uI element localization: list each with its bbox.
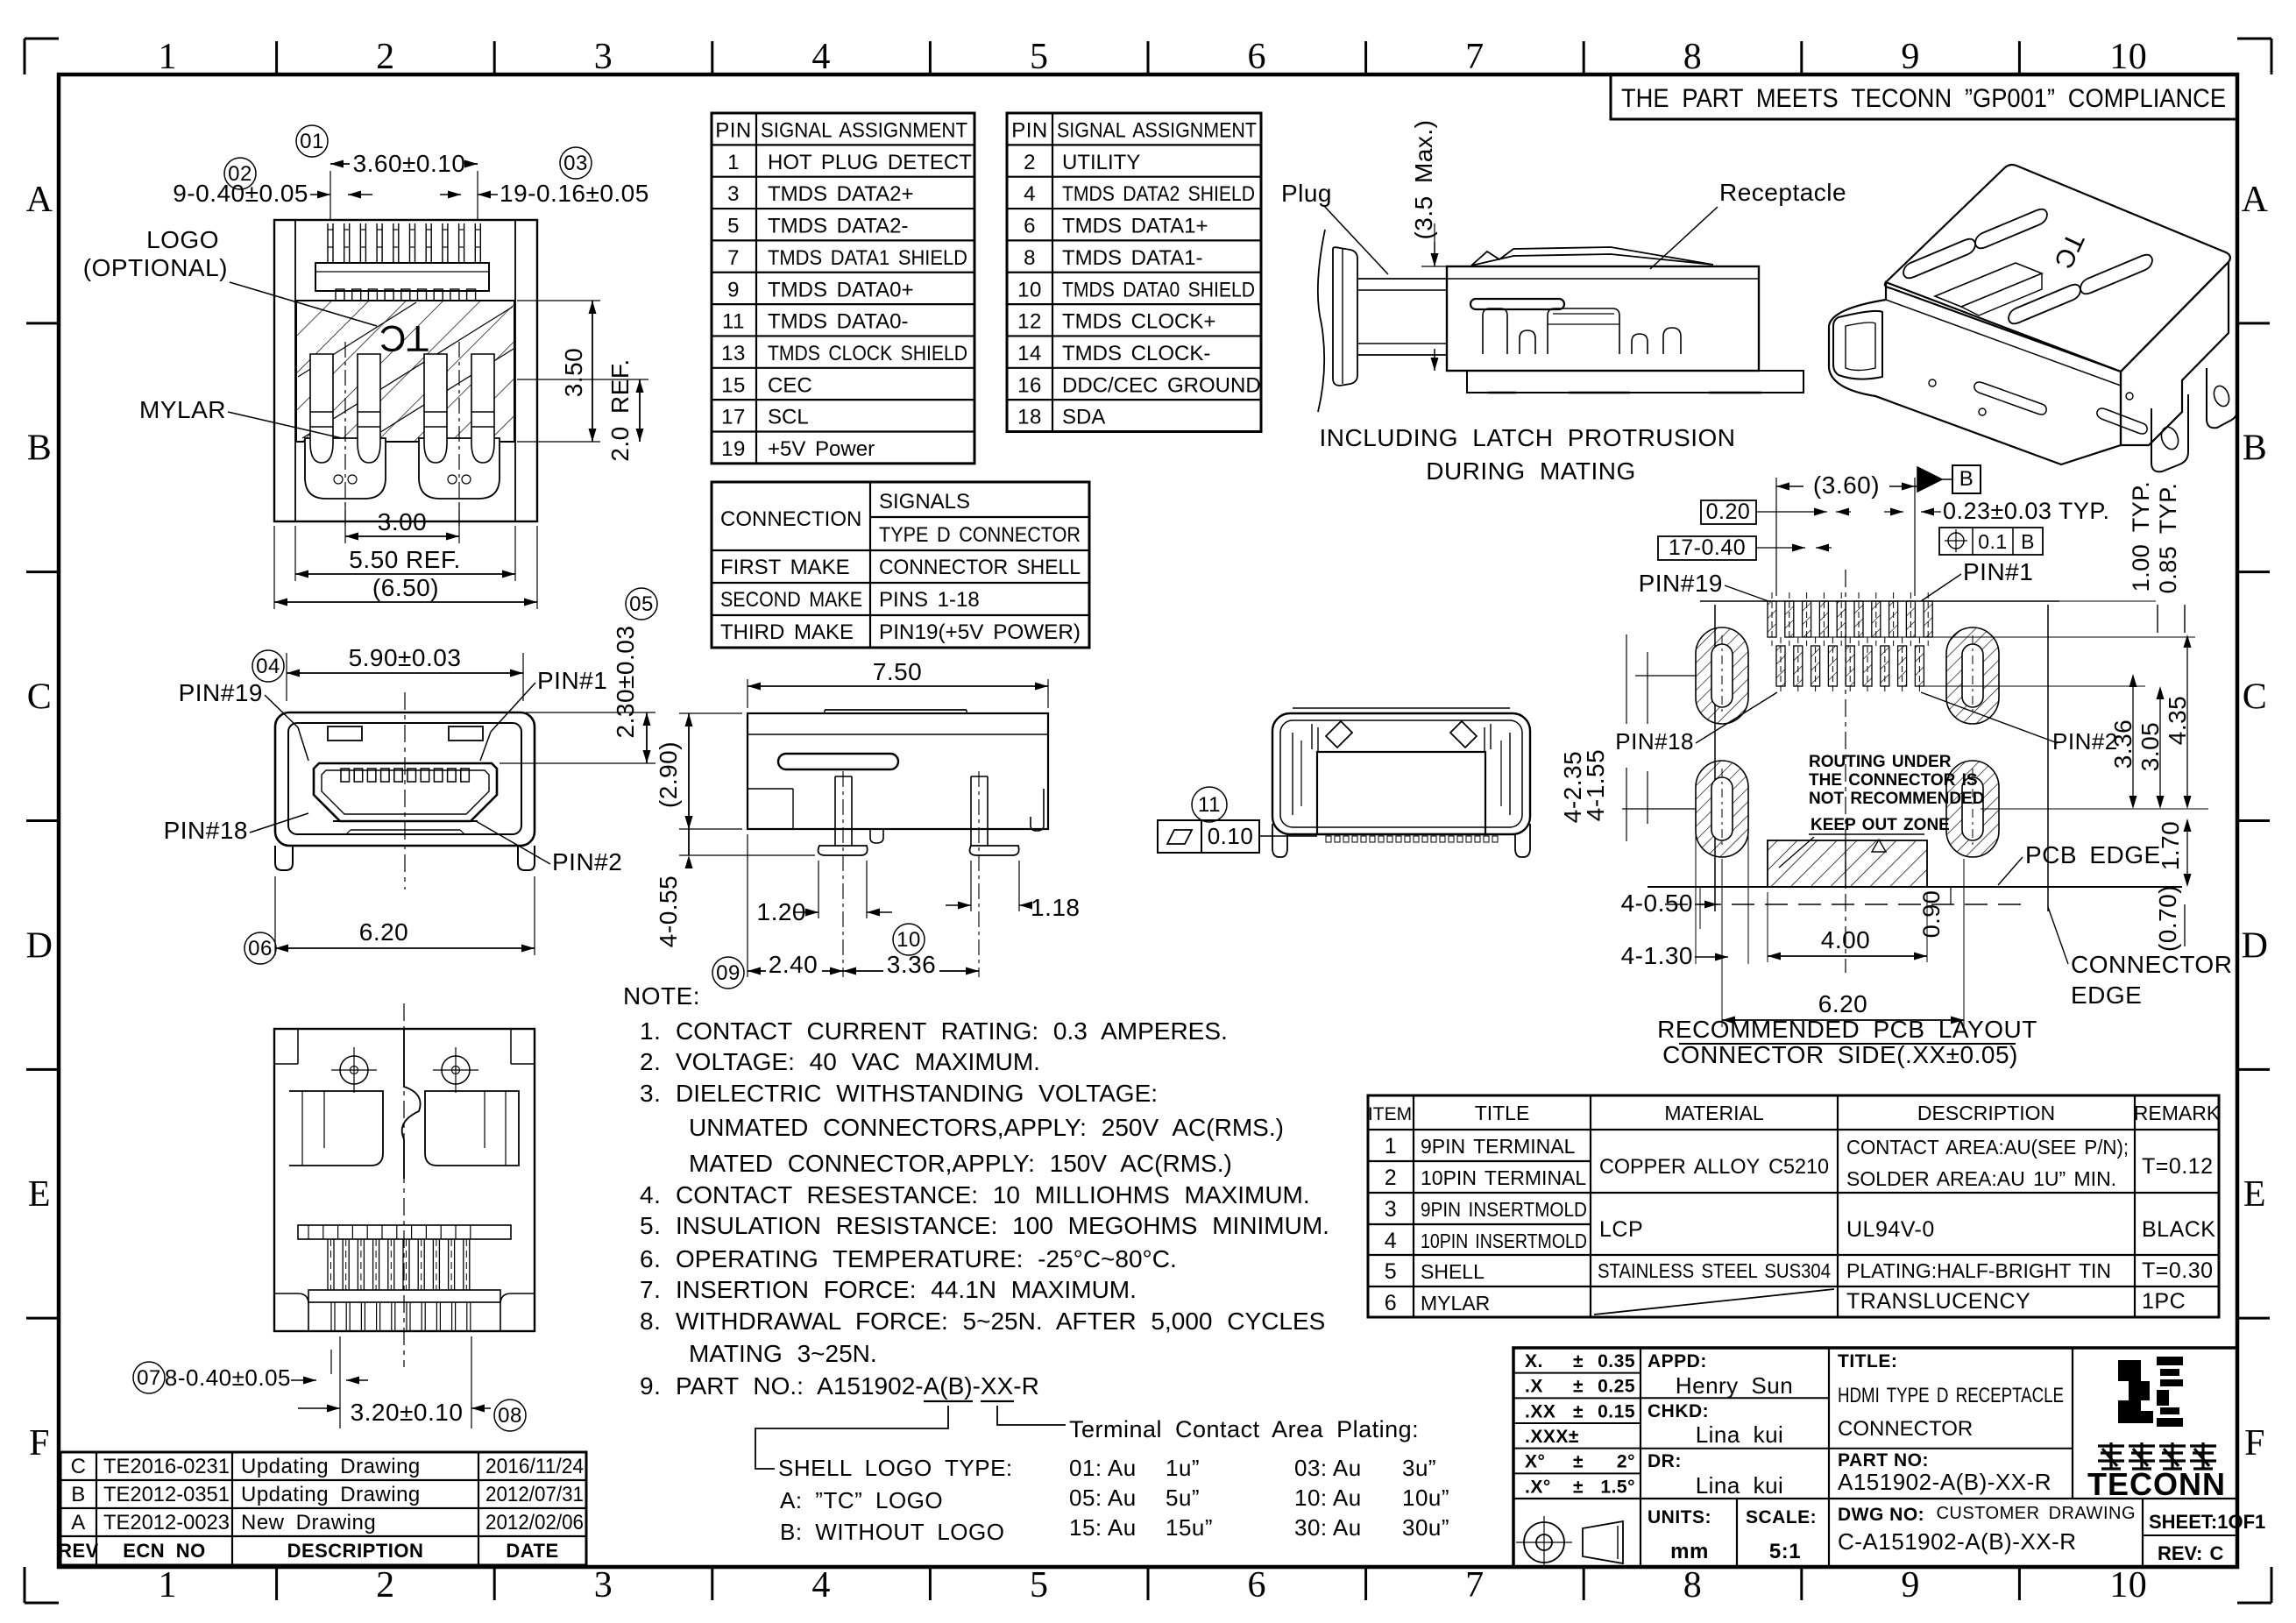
bottom view side blocks: [289, 1091, 383, 1166]
dim 6.20 front: [274, 876, 276, 955]
svg-text:A151902-A(B)-XX-R: A151902-A(B)-XX-R: [1838, 1469, 2052, 1495]
bottom view center S profile: [402, 1029, 421, 1179]
svg-text:PIN#19: PIN#19: [179, 679, 263, 706]
pcb layout keepout zone: [1768, 840, 1927, 887]
svg-text:TE2012-0351: TE2012-0351: [103, 1483, 230, 1506]
svg-text:NOTE:: NOTE:: [623, 982, 700, 1010]
svg-text:C-A151902-A(B)-XX-R: C-A151902-A(B)-XX-R: [1838, 1528, 2076, 1555]
part number underlines: [924, 1400, 973, 1402]
svg-text:DIELECTRIC WITHSTANDING VOLTAG: DIELECTRIC WITHSTANDING VOLTAGE:: [676, 1080, 1158, 1107]
pin signal table left: [712, 113, 974, 464]
front view top notches: [328, 726, 362, 741]
isometric D mouth: [1833, 311, 1882, 379]
svg-text:2: 2: [1385, 1166, 1397, 1190]
svg-text:±: ±: [1573, 1351, 1584, 1371]
svg-text:INCLUDING LATCH PROTRUSION: INCLUDING LATCH PROTRUSION: [1320, 424, 1736, 451]
side view lower step: [748, 788, 793, 790]
svg-text:PLATING:HALF-BRIGHT TIN: PLATING:HALF-BRIGHT TIN: [1846, 1259, 2111, 1282]
svg-text:LOGO: LOGO: [146, 226, 219, 253]
pcb layout pad row 2: [1776, 646, 1785, 686]
svg-text:.X°: .X°: [1525, 1477, 1551, 1497]
svg-text:T=0.30: T=0.30: [2142, 1258, 2214, 1283]
svg-text:B: B: [1959, 467, 1974, 491]
pcb edge line: [1648, 886, 2182, 888]
svg-text:REV: REV: [58, 1540, 99, 1562]
svg-text:2012/07/31: 2012/07/31: [485, 1483, 584, 1506]
svg-text:CONTACT RESESTANCE: 10 MILLIOH: CONTACT RESESTANCE: 10 MILLIOHMS MAXIMUM…: [676, 1181, 1310, 1208]
svg-text:PCB EDGE: PCB EDGE: [2025, 841, 2161, 868]
top view outer shell: [274, 220, 537, 521]
svg-text:ROUTING UNDER: ROUTING UNDER: [1809, 753, 1952, 771]
svg-text:7: 7: [727, 246, 740, 270]
svg-text:3: 3: [594, 1565, 613, 1605]
top view comb slots: [336, 289, 344, 301]
svg-text:TMDS DATA1 SHIELD: TMDS DATA1 SHIELD: [768, 246, 967, 270]
bottom view corner steps: [274, 1063, 298, 1065]
svg-text:TYPE D CONNECTOR: TYPE D CONNECTOR: [879, 523, 1081, 547]
svg-text:±: ±: [1573, 1452, 1584, 1472]
bottom view lower shell outline: [274, 1293, 308, 1331]
svg-text:CUSTOMER DRAWING: CUSTOMER DRAWING: [1936, 1504, 2136, 1523]
position tolerance frame: [1939, 528, 2043, 555]
svg-text:KEEP OUT ZONE: KEEP OUT ZONE: [1811, 816, 1950, 834]
svg-text:ECN NO: ECN NO: [123, 1540, 206, 1562]
svg-text:15: Au: 15: Au: [1069, 1514, 1137, 1541]
svg-text:5u”: 5u”: [1166, 1485, 1200, 1511]
svg-text:EDGE: EDGE: [2071, 982, 2142, 1009]
svg-text:STAINLESS STEEL SUS304: STAINLESS STEEL SUS304: [1598, 1259, 1831, 1282]
compliance note box: [1611, 74, 2237, 119]
svg-text:SOLDER AREA:AU 1U” MIN.: SOLDER AREA:AU 1U” MIN.: [1846, 1167, 2116, 1190]
svg-text:PINS 1-18: PINS 1-18: [879, 588, 980, 612]
svg-text:A: A: [26, 180, 53, 220]
svg-text:INSULATION RESISTANCE: 100 MEG: INSULATION RESISTANCE: 100 MEGOHMS MINIM…: [676, 1212, 1329, 1239]
svg-text:1PC: 1PC: [2142, 1289, 2186, 1314]
svg-text:Plug: Plug: [1281, 180, 1332, 207]
svg-text:2.40: 2.40: [769, 951, 818, 978]
svg-text:.XXX±: .XXX±: [1525, 1427, 1579, 1447]
front view D opening: [314, 763, 497, 821]
svg-text:5: 5: [1030, 37, 1049, 77]
svg-text:03: 03: [563, 152, 588, 175]
pcb dim 17-0.40 box: [1658, 536, 1756, 560]
back view outer shell: [1272, 713, 1530, 834]
svg-text:3.20±0.10: 3.20±0.10: [351, 1399, 464, 1426]
isometric shell top face: [1885, 165, 2230, 372]
svg-text:17-0.40: 17-0.40: [1669, 535, 1746, 560]
dim 8-0.40 bottom view: [133, 1362, 165, 1393]
svg-text:X°: X°: [1525, 1452, 1545, 1472]
svg-text:30u”: 30u”: [1402, 1514, 1449, 1541]
front view contact teeth: [341, 769, 350, 782]
approval cells: [1641, 1397, 1829, 1399]
svg-text:0.15: 0.15: [1598, 1401, 1635, 1421]
svg-text:4: 4: [1385, 1229, 1397, 1253]
isometric front left face: [1829, 282, 2121, 464]
svg-text:C: C: [71, 1455, 87, 1478]
svg-text:01: Au: 01: Au: [1069, 1455, 1137, 1481]
dim 4-0.55 side: [679, 854, 815, 856]
third angle projection symbol: [1524, 1522, 1564, 1563]
mating view receptacle body: [1447, 266, 1759, 371]
svg-text:10: 10: [896, 928, 921, 952]
front view lower ledge: [333, 820, 478, 822]
bottom view terminal pins lower: [327, 1239, 329, 1290]
svg-text:CEC: CEC: [768, 373, 812, 397]
svg-text:19: 19: [721, 437, 746, 461]
top view diagonal accents: [298, 302, 416, 377]
svg-text:TMDS DATA0+: TMDS DATA0+: [768, 278, 913, 301]
svg-text:PIN#19: PIN#19: [1639, 570, 1723, 597]
svg-text:PIN#1: PIN#1: [1963, 558, 2033, 585]
svg-text:0.20: 0.20: [1706, 500, 1751, 524]
svg-text:0.90: 0.90: [1918, 890, 1945, 939]
pcb layout centerline: [1845, 570, 1846, 973]
svg-text:TMDS DATA1-: TMDS DATA1-: [1062, 246, 1202, 270]
svg-text:MATERIAL: MATERIAL: [1664, 1102, 1764, 1124]
isometric mount tab front: [2207, 358, 2237, 428]
dim 2.0 REF vertical: [517, 379, 648, 380]
pcb dim 6.20: [1721, 859, 1723, 1027]
bottom view centerline: [403, 1003, 405, 1367]
svg-text:UNMATED CONNECTORS,APPLY: 250V: UNMATED CONNECTORS,APPLY: 250V AC(RMS.): [689, 1114, 1284, 1141]
svg-text:6: 6: [1248, 37, 1267, 77]
svg-text:TMDS CLOCK SHIELD: TMDS CLOCK SHIELD: [768, 342, 967, 365]
svg-text:Updating Drawing: Updating Drawing: [241, 1483, 421, 1506]
svg-text:5: 5: [727, 215, 740, 238]
svg-text:A: A: [2242, 180, 2269, 220]
svg-text:10: 10: [2109, 1565, 2147, 1605]
dim 2.30 vertical front: [526, 712, 655, 713]
svg-text:10: Au: 10: Au: [1294, 1485, 1362, 1511]
svg-text:12: 12: [1017, 310, 1042, 334]
pin#18 label pcb: [1611, 727, 1697, 754]
svg-text:3.60±0.10: 3.60±0.10: [353, 150, 466, 177]
svg-text:4.00: 4.00: [1821, 926, 1871, 953]
svg-text:0.85 TYP.: 0.85 TYP.: [2155, 483, 2181, 594]
svg-text:5.90±0.03: 5.90±0.03: [349, 644, 462, 671]
svg-text:14: 14: [1017, 342, 1042, 365]
svg-text:10: 10: [1017, 278, 1042, 301]
bottom view outer body: [274, 1029, 535, 1331]
svg-text:11: 11: [722, 310, 745, 334]
teconn chinese characters: [2098, 1442, 2124, 1469]
svg-text:3: 3: [1385, 1197, 1397, 1222]
svg-text:TMDS DATA2 SHIELD: TMDS DATA2 SHIELD: [1062, 182, 1255, 206]
back view pin tips dashed: [1326, 836, 1331, 842]
svg-text:HDMI TYPE D RECEPTACLE: HDMI TYPE D RECEPTACLE: [1838, 1384, 2064, 1407]
svg-text:TMDS DATA2+: TMDS DATA2+: [768, 182, 913, 206]
svg-text:PIN: PIN: [715, 119, 752, 143]
svg-text:CHKD:: CHKD:: [1648, 1401, 1709, 1421]
svg-text:Updating Drawing: Updating Drawing: [241, 1455, 421, 1478]
svg-text:2°: 2°: [1617, 1452, 1635, 1472]
svg-text:UTILITY: UTILITY: [1062, 151, 1140, 174]
svg-text:SCL: SCL: [768, 406, 809, 429]
svg-text:8.: 8.: [640, 1308, 661, 1335]
svg-text:RECOMMENDED PCB LAYOUT: RECOMMENDED PCB LAYOUT: [1657, 1016, 2037, 1043]
svg-text:TC: TC: [379, 318, 429, 359]
datum B flag: [1917, 467, 1942, 492]
leader from A(B) to shell logo type: [755, 1406, 948, 1469]
grid row ticks: [26, 322, 59, 324]
svg-text:10u”: 10u”: [1402, 1485, 1449, 1511]
svg-text:WITHDRAWAL FORCE: 5~25N. AFTER: WITHDRAWAL FORCE: 5~25N. AFTER 5,000 CYC…: [676, 1308, 1325, 1335]
pcb layout connector edge lines: [1714, 605, 1716, 911]
isometric mount tab rear: [2151, 394, 2188, 471]
svg-text:1.18: 1.18: [1031, 894, 1081, 921]
svg-text:17: 17: [721, 406, 746, 429]
isometric latch cuts: [1935, 263, 2042, 307]
svg-text:DATE: DATE: [506, 1540, 558, 1562]
pcb layout pad row 1: [1768, 601, 1776, 637]
svg-text:PART NO.: A151902-A(B)-XX-R: PART NO.: A151902-A(B)-XX-R: [676, 1372, 1039, 1400]
svg-text:New Drawing: New Drawing: [241, 1511, 376, 1534]
teconn logo icon: [2118, 1357, 2183, 1427]
dim 3.36 side: [843, 970, 979, 972]
svg-text:11: 11: [1198, 793, 1221, 817]
svg-text:F: F: [2244, 1423, 2265, 1464]
svg-text:THE CONNECTOR IS: THE CONNECTOR IS: [1809, 771, 1978, 790]
svg-text:05: 05: [629, 592, 654, 616]
side view anchor legs: [834, 776, 836, 846]
svg-text:8-0.40±0.05: 8-0.40±0.05: [165, 1364, 291, 1391]
svg-text:A: A: [71, 1511, 86, 1534]
bottom view target marks: [340, 1056, 368, 1084]
svg-text:SDA: SDA: [1062, 406, 1105, 429]
svg-text:SHELL LOGO TYPE:: SHELL LOGO TYPE:: [778, 1455, 1013, 1481]
svg-text:REMARK: REMARK: [2134, 1102, 2221, 1124]
svg-text:CONNECTOR SIDE(.XX±0.05): CONNECTOR SIDE(.XX±0.05): [1662, 1041, 2018, 1068]
svg-text:ITEM: ITEM: [1368, 1104, 1412, 1124]
svg-text:SCALE:: SCALE:: [1746, 1507, 1817, 1527]
svg-text:3.50: 3.50: [560, 348, 587, 398]
svg-text:6.: 6.: [640, 1245, 661, 1272]
mating view body slot: [1470, 299, 1564, 309]
svg-text:PIN19(+5V POWER): PIN19(+5V POWER): [879, 620, 1081, 644]
svg-text:3.00: 3.00: [378, 508, 428, 535]
svg-text:mm: mm: [1670, 1540, 1709, 1563]
title block: [1513, 1348, 2237, 1567]
svg-text:TRANSLUCENCY: TRANSLUCENCY: [1846, 1289, 2030, 1314]
svg-text:VOLTAGE: 40 VAC MAXIMUM.: VOLTAGE: 40 VAC MAXIMUM.: [676, 1048, 1040, 1075]
bottom view insert comb: [298, 1225, 511, 1239]
svg-text:0.35: 0.35: [1598, 1351, 1635, 1371]
pcb dim 0.20 box: [1701, 500, 1756, 524]
svg-text:6.20: 6.20: [359, 918, 409, 946]
svg-text:MATING 3~25N.: MATING 3~25N.: [689, 1340, 877, 1367]
svg-text:DWG NO:: DWG NO:: [1838, 1505, 1924, 1525]
side view feet: [818, 846, 868, 855]
svg-text:05: Au: 05: Au: [1069, 1485, 1137, 1511]
svg-text:CONNECTION: CONNECTION: [720, 507, 861, 531]
svg-text:7: 7: [1465, 37, 1485, 77]
pcb dim 4.00: [1767, 892, 1768, 962]
front view outer shell: [275, 712, 535, 846]
svg-text:TMDS DATA0-: TMDS DATA0-: [768, 310, 908, 334]
svg-text:9PIN INSERTMOLD: 9PIN INSERTMOLD: [1421, 1198, 1587, 1221]
svg-text:9.: 9.: [640, 1372, 661, 1400]
svg-text:SHEET:1OF1: SHEET:1OF1: [2149, 1511, 2265, 1533]
mating view pcb: [1467, 371, 1803, 393]
svg-text:8: 8: [1683, 1565, 1703, 1605]
svg-text:DURING MATING: DURING MATING: [1426, 457, 1636, 485]
svg-text:DESCRIPTION: DESCRIPTION: [287, 1540, 424, 1562]
title cell: [1829, 1448, 2073, 1449]
svg-text:7.50: 7.50: [873, 658, 923, 685]
svg-text:TECONN: TECONN: [2087, 1466, 2226, 1502]
svg-text:2: 2: [376, 1565, 395, 1605]
svg-text:1: 1: [159, 1565, 178, 1605]
svg-text:INSERTION FORCE: 44.1N MAXIMUM: INSERTION FORCE: 44.1N MAXIMUM.: [676, 1276, 1137, 1303]
svg-text:2: 2: [376, 37, 395, 77]
svg-text:.X: .X: [1525, 1377, 1543, 1397]
svg-text:BLACK: BLACK: [2142, 1217, 2215, 1242]
svg-text:(3.5 Max.): (3.5 Max.): [1410, 119, 1437, 239]
svg-text:9: 9: [1901, 1565, 1920, 1605]
side view centerlines: [842, 771, 844, 977]
svg-text:3: 3: [594, 37, 613, 77]
svg-text:T=0.12: T=0.12: [2142, 1154, 2214, 1179]
dim 3.60 pm 0.10: [330, 171, 331, 219]
svg-text:CONTACT CURRENT RATING: 0.3 AM: CONTACT CURRENT RATING: 0.3 AMPERES.: [676, 1017, 1228, 1045]
svg-text:Lina kui: Lina kui: [1696, 1421, 1784, 1448]
svg-text:1.00 TYP.: 1.00 TYP.: [2128, 481, 2154, 592]
dim 5.50 REF: [294, 526, 296, 581]
dim 3.20 bottom view: [339, 1336, 341, 1428]
svg-text:0.25: 0.25: [1598, 1377, 1635, 1397]
svg-text:4-0.55: 4-0.55: [655, 875, 682, 947]
svg-text:0.10: 0.10: [1208, 823, 1254, 849]
svg-text:Lina kui: Lina kui: [1696, 1472, 1784, 1499]
svg-text:THE PART MEETS TECONN ”GP001”: THE PART MEETS TECONN ”GP001” COMPLIANCE: [1621, 84, 2226, 113]
svg-text:3u”: 3u”: [1402, 1455, 1436, 1481]
side view slot: [778, 754, 898, 769]
diagonal in empty material cell: [1594, 1289, 1834, 1315]
corner trim marks: [25, 38, 59, 40]
svg-text:TMDS DATA0 SHIELD: TMDS DATA0 SHIELD: [1062, 278, 1255, 301]
top view mylar hatched region: [296, 301, 514, 442]
svg-text:2012/02/06: 2012/02/06: [485, 1511, 584, 1534]
svg-text:X.: X.: [1525, 1351, 1543, 1371]
bill of materials table: [1368, 1095, 2219, 1317]
svg-text:DR:: DR:: [1648, 1451, 1682, 1471]
svg-text:(2.90): (2.90): [655, 741, 682, 808]
svg-text:±: ±: [1573, 1401, 1584, 1421]
tolerance rows: [1513, 1372, 1641, 1374]
svg-text:.XX: .XX: [1525, 1401, 1555, 1421]
svg-text:6: 6: [1248, 1565, 1267, 1605]
svg-text:1: 1: [727, 151, 740, 174]
svg-text:PIN#18: PIN#18: [164, 817, 248, 844]
svg-text:9: 9: [1901, 37, 1920, 77]
dim 3.50 vertical: [517, 300, 600, 301]
side view body: [748, 713, 1048, 829]
svg-text:HOT PLUG DETECT: HOT PLUG DETECT: [768, 151, 972, 174]
svg-text:4: 4: [811, 37, 831, 77]
front view centerline: [404, 692, 406, 889]
svg-text:5: 5: [1385, 1259, 1397, 1284]
back view top edge line: [1293, 707, 1510, 709]
svg-text:B: B: [2243, 429, 2268, 469]
top view spring contacts: [305, 438, 386, 499]
svg-text:LCP: LCP: [1599, 1217, 1643, 1242]
svg-text:B: B: [71, 1483, 86, 1506]
svg-text:C: C: [2243, 677, 2268, 718]
svg-text:NOT RECOMMENDED: NOT RECOMMENDED: [1809, 790, 1984, 808]
svg-text:07: 07: [137, 1366, 161, 1390]
svg-text:08: 08: [498, 1404, 522, 1428]
svg-text:(6.50): (6.50): [372, 574, 439, 601]
grid column ticks: [275, 41, 278, 74]
svg-text:TE2012-0023: TE2012-0023: [103, 1511, 230, 1534]
svg-text:4-1.55: 4-1.55: [1582, 749, 1609, 821]
svg-text:Terminal Contact Area Plating:: Terminal Contact Area Plating:: [1069, 1416, 1419, 1442]
svg-text:2.0 REF.: 2.0 REF.: [606, 358, 634, 461]
svg-text:04: 04: [256, 655, 280, 678]
dim 5.90 front view: [286, 653, 287, 701]
svg-text:B: B: [27, 429, 53, 469]
svg-text:TITLE: TITLE: [1475, 1102, 1530, 1124]
front view inner shell: [288, 723, 521, 834]
leader from XX to plating: [997, 1406, 1066, 1425]
svg-text:TE2016-0231: TE2016-0231: [103, 1455, 230, 1478]
svg-text:16: 16: [1017, 373, 1042, 397]
svg-text:SECOND MAKE: SECOND MAKE: [720, 588, 862, 612]
svg-text:TITLE:: TITLE:: [1838, 1351, 1897, 1371]
svg-text:±: ±: [1573, 1477, 1584, 1497]
svg-text:3: 3: [727, 182, 740, 206]
svg-text:B: B: [2021, 530, 2035, 553]
flatness feature frame: [1158, 820, 1259, 853]
svg-text:13: 13: [721, 342, 746, 365]
svg-text:SIGNAL ASSIGNMENT: SIGNAL ASSIGNMENT: [1057, 119, 1257, 143]
svg-text:SIGNALS: SIGNALS: [879, 490, 970, 514]
svg-text:SIGNAL ASSIGNMENT: SIGNAL ASSIGNMENT: [761, 119, 967, 143]
dim 7.50: [747, 679, 748, 708]
svg-text:SHELL: SHELL: [1421, 1260, 1485, 1283]
svg-text:C: C: [27, 677, 53, 718]
svg-text:E: E: [28, 1174, 51, 1215]
svg-text:30: Au: 30: Au: [1294, 1514, 1362, 1541]
svg-text:THIRD MAKE: THIRD MAKE: [720, 620, 854, 644]
dim 1.20 side: [818, 861, 819, 918]
svg-text:TMDS CLOCK-: TMDS CLOCK-: [1062, 342, 1210, 365]
sheet rev cells: [2143, 1534, 2237, 1536]
svg-text:2016/11/24: 2016/11/24: [485, 1455, 584, 1478]
svg-text:CONNECTOR SHELL: CONNECTOR SHELL: [879, 556, 1081, 579]
svg-text:OPERATING TEMPERATURE: -25°C~8: OPERATING TEMPERATURE: -25°C~80°C.: [676, 1245, 1177, 1272]
svg-text:09: 09: [716, 961, 741, 985]
svg-text:APPD:: APPD:: [1648, 1351, 1707, 1371]
back view insert block: [1317, 752, 1485, 834]
revision history table: [60, 1452, 586, 1565]
svg-text:PIN#2: PIN#2: [2052, 728, 2118, 755]
svg-text:5.: 5.: [640, 1212, 661, 1239]
svg-text:1.5°: 1.5°: [1600, 1477, 1635, 1497]
svg-text:REV: C: REV: C: [2158, 1542, 2223, 1564]
svg-text:PIN: PIN: [1011, 119, 1048, 143]
svg-text:9: 9: [727, 278, 740, 301]
svg-text:MYLAR: MYLAR: [1421, 1292, 1490, 1315]
isometric right face: [2121, 262, 2229, 445]
svg-text:0.1: 0.1: [1978, 530, 2007, 553]
isometric small holes: [1929, 379, 1936, 386]
svg-text:0.23±0.03 TYP.: 0.23±0.03 TYP.: [1943, 498, 2109, 524]
svg-text:5.50 REF.: 5.50 REF.: [349, 546, 460, 573]
svg-text:9PIN TERMINAL: 9PIN TERMINAL: [1421, 1135, 1576, 1158]
svg-text:DESCRIPTION: DESCRIPTION: [1917, 1102, 2055, 1124]
